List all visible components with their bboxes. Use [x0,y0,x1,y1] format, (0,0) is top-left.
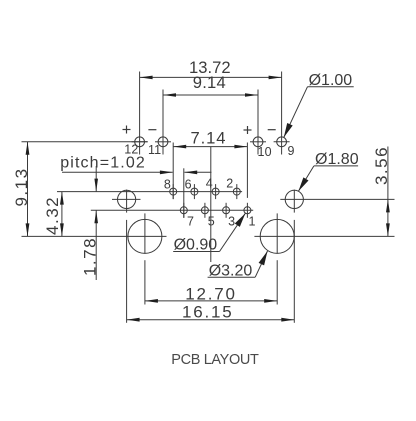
pin 8 (o0.90) [170,184,177,199]
svg-text:1.78: 1.78 [80,237,99,276]
centerline big hole left vertical [144,213,146,253]
label 7 [187,215,195,229]
pin row 8-6-4-2 centerline [57,191,242,193]
extension line pin7 column [183,168,185,218]
svg-text:PCB LAYOUT: PCB LAYOUT [171,352,259,368]
svg-text:1: 1 [249,215,257,229]
centerline big hole left horizontal [22,235,167,237]
svg-text:11: 11 [148,143,161,157]
title PCB LAYOUT [171,352,259,368]
pin 4 (o0.90) [212,184,219,199]
big hole left (o3.20) [128,219,162,253]
side hole right (o1.80) [285,190,303,213]
extension line hole11 column [162,90,164,155]
big hole right (o3.20) [260,219,294,253]
svg-text:8: 8 [164,178,172,192]
svg-text:3.56: 3.56 [372,146,391,185]
minus sign left [148,129,156,131]
hole 9 (o1.00) [274,137,290,147]
dimension 13.72 line [140,76,282,80]
dimension 9.13 line [26,142,30,237]
extension line hole12 column [139,72,141,155]
extension line hole9 column [281,72,283,155]
svg-text:4: 4 [206,176,214,190]
label 12 [124,143,138,157]
svg-text:10: 10 [257,145,271,159]
label 6 [185,178,193,192]
pin 6 (o0.90) [191,184,198,199]
leader o3.20 [208,251,268,280]
leader o0.90 [173,213,245,254]
plus sign right [244,126,252,134]
dimension 3.56 text [372,146,391,185]
pin row 7-5-3-1 centerline [91,209,253,211]
pin 1 (o0.90) [244,203,251,218]
label 1 [249,215,257,229]
leader o1.80 [298,151,358,191]
label 5 [208,215,216,229]
plus sign left [123,126,131,134]
pin 2 (o0.90) [233,184,240,199]
dimension 9.14 text [193,73,226,92]
centerline big hole right vertical [276,213,278,253]
hole 10 (o1.00) [250,137,266,147]
extension line side hole right down [293,220,295,323]
dimension 12.70 text [185,284,237,303]
svg-text:9.14: 9.14 [193,73,226,92]
label 8 [164,178,172,192]
label 10 [257,145,271,159]
dimension 9.14 line [163,93,258,97]
svg-text:7.14: 7.14 [190,128,226,147]
dimension 7.14 line [173,145,247,149]
svg-text:9: 9 [287,144,294,158]
leader o1.00 [284,72,354,137]
pitch dimension left tail and arrow [62,171,173,175]
pitch dimension right tail and arrow [184,171,211,175]
dimension 12.70 line [145,299,277,303]
side hole left (o1.80) [112,190,141,213]
dimension 4.32 line [60,192,64,237]
pin 7 (o0.90) [180,203,187,218]
svg-text:2: 2 [226,176,234,190]
pin 3 (o0.90) [223,203,230,218]
dimension 13.72 text [189,58,231,77]
centerline big hole right horizontal [254,235,394,237]
extension line hole10 column [257,90,259,155]
svg-text:5: 5 [208,215,216,229]
label 9 [287,144,294,158]
dimension 1.78 text [80,237,99,276]
svg-text:12.70: 12.70 [185,284,237,303]
label 11 [148,143,161,157]
pitch=1.02 text [60,155,146,172]
label 4 [206,176,214,190]
hole 12 (o1.00) [132,137,148,147]
dimension 16.15 text [182,302,234,321]
label 2 [226,176,234,190]
label 3 [228,215,236,229]
dimension 4.32 text [43,196,62,235]
svg-text:4.32: 4.32 [43,196,62,235]
svg-text:12: 12 [124,143,138,157]
extension line side hole left down [126,220,128,323]
svg-text:16.15: 16.15 [182,302,234,321]
svg-text:9.13: 9.13 [12,167,31,206]
center axis line [210,147,212,262]
dimension 9.13 text [12,167,31,206]
dimension 3.56 line [386,147,390,237]
extension line pin1 column [246,143,248,198]
hole 11 (o1.00) [155,137,171,147]
extension line big hole left [144,260,146,304]
extension line big hole right [276,260,278,304]
svg-text:7: 7 [187,215,195,229]
dimension 1.78 lower arrow [94,210,98,280]
svg-text:pitch=1.02: pitch=1.02 [60,155,146,172]
extension line side hole right [280,198,394,200]
svg-text:6: 6 [185,178,193,192]
dimension 1.78 upper arrow [94,166,98,192]
svg-text:3: 3 [228,215,236,229]
dimension 16.15 line [127,318,295,322]
extension line top row left [22,141,148,143]
pin 5 (o0.90) [201,203,208,218]
extension line pin8 column [172,143,174,200]
minus sign right [268,129,276,131]
dimension 7.14 text [190,128,226,147]
